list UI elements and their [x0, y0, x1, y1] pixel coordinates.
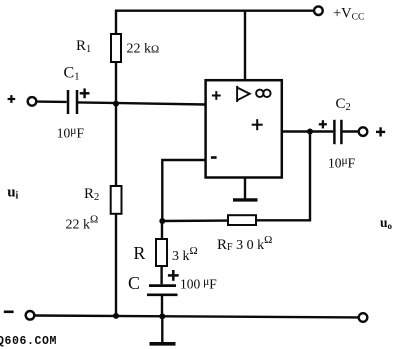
svg-text:100 μF: 100 μF [180, 276, 217, 292]
svg-text:3 kΩ: 3 kΩ [172, 245, 198, 264]
svg-text:uo: uo [380, 215, 393, 231]
svg-text:ui: ui [7, 185, 18, 202]
svg-text:+VCC: +VCC [333, 5, 364, 22]
svg-text:RF 3 0 kΩ: RF 3 0 kΩ [217, 234, 272, 253]
svg-text:C2: C2 [336, 96, 351, 113]
svg-text:10μF: 10μF [57, 125, 85, 141]
svg-text:R: R [133, 243, 145, 263]
svg-text:10μF: 10μF [328, 155, 356, 171]
svg-text:Q606.COM: Q606.COM [0, 335, 57, 348]
svg-text:R1: R1 [76, 38, 91, 55]
svg-text:C: C [128, 273, 140, 293]
svg-text:C1: C1 [64, 65, 80, 83]
svg-text:22 kΩ: 22 kΩ [127, 42, 160, 57]
svg-text:22 kΩ: 22 kΩ [66, 214, 99, 233]
svg-text:R2: R2 [84, 186, 99, 203]
